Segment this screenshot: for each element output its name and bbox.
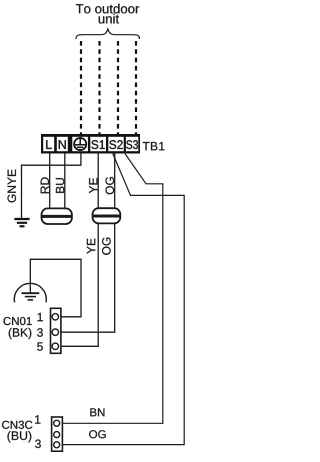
- ferrite clamp 2 (YE/OG): [93, 208, 121, 223]
- wire dashed core 1 (to earth terminal): [80, 41, 82, 134]
- pin label 1: [38, 313, 43, 321]
- pin label 3: [35, 440, 41, 449]
- pin label 3: [37, 328, 43, 337]
- wire RD (L to clamp): [49, 154, 51, 210]
- wire OG (clamp to CN01 pin 3): [58, 223, 114, 333]
- wire dashed core 3 (to S2): [117, 41, 119, 134]
- connector CN01: [51, 308, 61, 353]
- label: To outdoor unit: [76, 4, 139, 24]
- label YE (below clamp): [87, 239, 95, 254]
- label BN: [90, 408, 104, 416]
- ground (earth) symbol: [14, 219, 29, 226]
- pin label 1: [35, 415, 40, 423]
- label TB1: [143, 142, 165, 150]
- label BU: [56, 178, 64, 193]
- wire BN (S3 to CN3C pin 1): [60, 154, 163, 424]
- wire GNYE (earth terminal to ground): [22, 154, 81, 219]
- label OG (above clamp): [106, 177, 115, 194]
- wire OG (S2 to CN3C pin 3): [60, 154, 185, 445]
- brace over outdoor cable: [76, 29, 140, 39]
- label CN3C (BU): [2, 421, 32, 443]
- label OG (bottom): [89, 430, 106, 438]
- connector CN3C: [52, 417, 63, 451]
- wire OG (S2 to clamp): [114, 154, 116, 210]
- wire dashed core 4 (to S3): [135, 41, 137, 134]
- pin label 5: [37, 342, 43, 350]
- wire CN01 pin 1 to noiseless earth: [30, 259, 81, 317]
- label YE (above clamp): [89, 178, 97, 193]
- wire YE (clamp to CN01 pin 5): [58, 223, 98, 347]
- label CN01 (BK): [4, 317, 32, 339]
- label RD: [41, 177, 49, 193]
- wire BU (N to clamp): [64, 154, 66, 210]
- noiseless earth symbol: [14, 283, 46, 302]
- wire YE (S1 to clamp): [97, 154, 99, 210]
- ferrite clamp 1 (RD/BU): [42, 208, 72, 224]
- earth terminal symbol in TB1: [72, 137, 88, 151]
- label OG (below clamp): [102, 238, 111, 255]
- label GNYE: [8, 170, 17, 203]
- wire dashed core 2 (to S1): [98, 41, 100, 134]
- terminal block TB1: [41, 134, 140, 154]
